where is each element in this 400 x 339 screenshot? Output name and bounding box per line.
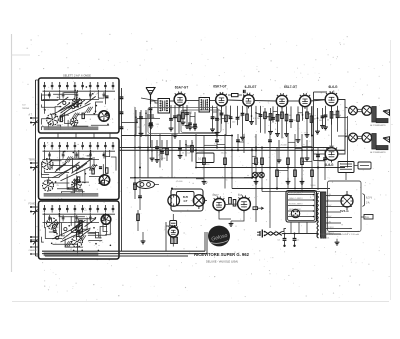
svg-text:1M: 1M <box>152 118 155 120</box>
oscillator section box <box>148 108 218 134</box>
primary tap wire NERO <box>288 210 314 212</box>
output transformer unit 2 <box>349 133 358 142</box>
wire cord to winding <box>295 234 317 238</box>
primary tap wire ROSSO <box>288 205 314 207</box>
wire 6L6 cathode links <box>331 106 333 148</box>
speaker magnet core unit 1 <box>372 107 376 123</box>
wire plate V5 <box>310 100 325 101</box>
wire V4 cathode drop <box>278 140 280 160</box>
svg-text:6L6-G: 6L6-G <box>324 163 334 167</box>
tuner box 3 bandswitch wafer S30 <box>47 218 58 229</box>
bus junction blobs <box>147 146 149 148</box>
fuse box <box>364 215 373 220</box>
wire plate V2 <box>227 99 243 102</box>
svg-text:BLU-NERO: BLU-NERO <box>289 215 300 217</box>
wire primary drop 2 <box>298 222 300 234</box>
wire vertical run 16 <box>269 134 271 228</box>
wire primary drop 1 <box>290 222 292 234</box>
tuner box 2 bandswitch wafer S22 <box>72 179 82 189</box>
junction dot 1 <box>134 147 136 149</box>
wire vertical run 9 <box>224 134 226 189</box>
tuner box 1 bandswitch wafer S10 <box>47 114 59 126</box>
svg-text:A.T.: A.T. <box>29 114 33 117</box>
wire OT return vertical <box>347 116 349 168</box>
bus mid 1 <box>122 135 233 137</box>
secondary lead 6 <box>326 222 341 224</box>
tube V9 6SQ7-GT <box>213 199 225 211</box>
transformer ground <box>336 239 338 242</box>
secondary lead 8 <box>326 233 341 235</box>
junction dot 7 <box>269 167 271 169</box>
ground left-mid <box>142 232 144 241</box>
field coil box <box>338 162 354 173</box>
mains plug <box>261 230 263 238</box>
wire vertical run 8 <box>216 134 218 148</box>
field coil wire <box>345 173 347 181</box>
speaker cone unit 2 <box>383 137 390 143</box>
power transformer primary tap box <box>286 191 317 223</box>
resistor on bus 5 <box>287 158 290 165</box>
junction dot 6 <box>255 149 257 151</box>
wire vertical run 19 <box>294 134 296 189</box>
wire 6L6 plate to OT2 <box>338 136 348 154</box>
filament bracket <box>363 194 365 207</box>
wire cord to primary <box>282 229 286 232</box>
junction dot 12 <box>261 188 263 190</box>
svg-text:6SA7-GT: 6SA7-GT <box>175 86 189 90</box>
wire top feed <box>141 98 158 101</box>
resistor on bus 1 <box>203 158 206 165</box>
svg-text:1 M: 1 M <box>156 124 160 126</box>
ground stub 4 <box>301 178 303 182</box>
resistor on bus 7 <box>301 158 304 165</box>
tuner box 3 bandswitch wafer S32 <box>75 227 82 234</box>
wire vertical run 7 <box>203 136 205 178</box>
tube V1 6SA7-GT <box>174 94 186 106</box>
wire vertical run 11 <box>237 134 239 150</box>
svg-text:6L6-G: 6L6-G <box>328 85 338 89</box>
svg-text:6SQ7: 6SQ7 <box>213 194 220 197</box>
svg-text:ROSSO: ROSSO <box>327 227 334 229</box>
tube V4 6SL7-GT <box>276 95 287 106</box>
dial lamp L2 <box>259 172 265 178</box>
wire V8 up <box>172 214 174 221</box>
wire cord junction <box>282 233 295 235</box>
wire plate V3 <box>254 100 277 103</box>
wire vertical run 13 <box>251 148 253 178</box>
wire tuner bottom exit 3 <box>45 255 188 257</box>
wire antenna down <box>150 104 152 148</box>
wire V8 left link <box>166 225 170 227</box>
IF transformer T1 <box>158 99 170 114</box>
svg-text:G.V.: G.V. <box>22 105 26 107</box>
wire outer left rail stub top <box>36 79 39 81</box>
wire grid V1 <box>170 100 175 102</box>
capacitor block feed 2 <box>120 111 124 113</box>
pilot lamp oval <box>137 181 155 189</box>
bus mid 3 <box>130 177 252 179</box>
wire vertical run 5 <box>171 134 173 178</box>
wire box1-box2 links <box>57 133 59 138</box>
wire vertical run 10 <box>231 136 233 189</box>
bus mid 2 <box>196 167 345 169</box>
svg-text:FONO: FONO <box>29 204 36 206</box>
resistor between V9 V10 b <box>233 200 236 207</box>
svg-text:ROSSO-NERO: ROSSO-NERO <box>289 204 303 206</box>
ground stub 3 <box>287 178 289 182</box>
svg-text:GT: GT <box>184 199 188 203</box>
junction dot 2 <box>159 149 161 151</box>
svg-text:25.000: 25.000 <box>281 145 288 147</box>
tube V10 <box>238 198 251 211</box>
capacitor block feed 1 <box>120 96 124 98</box>
wire tuner bottom exit 2 <box>42 253 207 255</box>
tuner box 2 coil can <box>99 175 109 185</box>
bus B+ screen <box>119 149 345 151</box>
wire push-pull loop left <box>314 91 328 93</box>
wire vertical run 17 <box>276 148 278 189</box>
resistor on bus 8 <box>311 170 314 177</box>
scan page edge bottom <box>12 301 389 303</box>
capacitor on bus 1 <box>215 139 219 141</box>
tuner box 1 bandswitch wafer S12 <box>70 118 78 126</box>
svg-text:50.000: 50.000 <box>319 161 326 163</box>
tuner box 2 shield box <box>39 138 120 200</box>
eye tube V12 socket <box>193 195 204 206</box>
secondary lead 2 <box>326 200 341 202</box>
tube V8 6SQ7 <box>168 227 178 237</box>
wire outer left rail <box>35 80 37 256</box>
wire vertical run 23 <box>324 150 326 180</box>
capacitor left-mid 1 <box>139 179 141 210</box>
RC network under V5 <box>297 106 299 139</box>
svg-text:Fus.: Fus. <box>365 217 370 219</box>
primary tap box inner outline <box>288 192 315 220</box>
input coil column <box>149 107 153 109</box>
svg-text:25.000: 25.000 <box>221 153 228 155</box>
wire antenna to T1 <box>151 101 159 103</box>
svg-text:ALTOPARLANTE: ALTOPARLANTE <box>370 124 386 127</box>
resistor near V10 <box>253 207 258 210</box>
wire exit drop 2 <box>206 232 208 254</box>
svg-text:NERO-NERO: NERO-NERO <box>289 209 302 211</box>
svg-text:6SL7-GT: 6SL7-GT <box>284 85 297 89</box>
power transformer primary winding <box>317 193 319 197</box>
RC network gap3 <box>317 108 319 131</box>
line filter cap 1 <box>284 234 286 239</box>
tuner box 2 bandswitch wafer S21 <box>43 180 54 191</box>
scan page edge left <box>11 34 13 272</box>
scan speckle noise <box>16 33 392 300</box>
wire push-pull grid bottom <box>314 153 326 155</box>
resistor R-osc grid <box>232 94 239 97</box>
ground stub 1 <box>203 178 205 182</box>
eye tube target V12a <box>168 195 180 207</box>
svg-text:25.000: 25.000 <box>225 115 232 117</box>
svg-text:ALTOPARLANTE: ALTOPARLANTE <box>370 151 386 154</box>
resistor on bus 3 <box>255 158 258 165</box>
svg-text:6,3 V 5 A.: 6,3 V 5 A. <box>320 237 330 240</box>
wire fuse <box>361 216 364 218</box>
svg-text:5V4-G: 5V4-G <box>340 209 349 213</box>
wire vertical run 4 <box>159 134 161 168</box>
svg-text:TERRA: TERRA <box>22 107 29 110</box>
svg-text:CAMBIO: CAMBIO <box>29 249 38 252</box>
junction dot 11 <box>317 167 319 169</box>
wire V10 down <box>231 210 244 221</box>
svg-text:SELETT. 2 A.F. 6 ONDE: SELETT. 2 A.F. 6 ONDE <box>63 74 91 78</box>
scan page edge top-left <box>12 54 31 56</box>
RC network under V6 <box>325 106 327 127</box>
IF transformer T2 <box>199 98 210 113</box>
svg-text:TERRA: TERRA <box>29 159 37 162</box>
RC network mid row2 <box>151 140 153 158</box>
resistor left-mid 1 <box>134 179 136 199</box>
junction dot 5 <box>231 177 233 179</box>
wire V8 left drop <box>165 222 167 251</box>
junction dot 4 <box>224 147 226 149</box>
RC network gap1 <box>189 112 191 127</box>
wire vertical run 2 <box>139 112 141 178</box>
RC network left col <box>135 110 137 135</box>
wire push-pull grid top <box>314 99 326 101</box>
capacitor on bus 4 <box>316 154 320 156</box>
wire grid V2 <box>210 100 216 102</box>
tuner box 2 bandswitch wafer S20 <box>42 159 53 170</box>
secondary enclosure box <box>328 181 362 232</box>
tuner box 1 coil can <box>99 111 109 121</box>
wire vertical run 21 <box>311 106 313 189</box>
tube V7 6L6-G <box>325 148 338 161</box>
tuner box 2 chassis band <box>44 193 98 196</box>
RC network under V4 <box>272 106 274 122</box>
svg-text:5.000: 5.000 <box>199 151 205 153</box>
resistor on bus 4 <box>276 170 279 177</box>
line filter cap 2 <box>294 234 296 239</box>
wire vertical run 1 <box>134 107 136 178</box>
junction dot 9 <box>301 149 303 151</box>
svg-text:50.000: 50.000 <box>203 164 210 166</box>
wire V9-V10 <box>225 203 238 206</box>
capacitor on bus 2 <box>236 139 240 141</box>
wire vertical run 14 <box>255 134 257 222</box>
tuner box 1 chassis band <box>44 127 98 130</box>
wire mesh links <box>252 155 256 157</box>
svg-text:350V: 350V <box>327 216 332 218</box>
wire V9 down <box>219 211 231 220</box>
svg-text:GIALLO-NERO: GIALLO-NERO <box>289 197 303 200</box>
bus mid 5 <box>262 191 320 193</box>
wire vertical run 22 <box>317 148 319 191</box>
wire exit drop 1 <box>204 232 206 251</box>
antenna symbol <box>150 95 152 104</box>
wire vertical run 6 <box>195 134 197 168</box>
wire vertical run 12 <box>243 134 245 153</box>
RC network mid row3 <box>179 140 181 156</box>
speaker magnet core unit 2 <box>372 134 376 150</box>
capacitor C-osc <box>243 90 245 93</box>
RC network gap2 <box>264 108 266 134</box>
tube V8 shield hatch <box>171 237 178 243</box>
wire vertical run 20 <box>301 134 303 192</box>
svg-text:5.000: 5.000 <box>310 185 316 187</box>
tuner box 1 bandswitch wafer S11 <box>72 98 82 108</box>
junction dot 10 <box>311 147 313 149</box>
svg-text:RICEVITORE SUPER G. 962: RICEVITORE SUPER G. 962 <box>194 252 250 257</box>
wire plate V1 <box>186 100 199 102</box>
wire vertical run 18 <box>287 134 289 189</box>
rectifier tube V11 5V4-G <box>341 195 353 207</box>
speaker cone unit 1 <box>383 110 390 116</box>
secondary lead 3 <box>326 206 352 208</box>
terminal dots bottom-left <box>30 239 32 241</box>
junction dot 8 <box>287 147 289 149</box>
aux box right of 6L6 <box>358 162 371 169</box>
tuner box 1 shield box <box>39 78 120 133</box>
RC network under V1 <box>170 105 172 128</box>
svg-text:1 M: 1 M <box>162 158 166 160</box>
tube V2 6SK7-GT <box>216 94 228 106</box>
primary tap wire VERDE <box>288 194 314 196</box>
wire OT B+ vertical <box>344 107 346 150</box>
svg-text:6V6: 6V6 <box>238 194 243 197</box>
voltage selector <box>291 209 299 217</box>
primary tap wire BLU <box>288 216 314 218</box>
RC network under V3 <box>237 106 239 125</box>
wire box to antenna link <box>122 121 138 123</box>
secondary lead 5 <box>326 217 352 219</box>
svg-text:5.000: 5.000 <box>187 112 193 114</box>
secondary lead 4 <box>326 211 341 213</box>
wire tuner bottom exit 1 <box>42 250 205 252</box>
tuner box 3 bandswitch wafer S31 <box>72 236 83 247</box>
tube V5 6SL7-GT b <box>299 95 310 106</box>
Geloso logo <box>208 226 230 247</box>
input terminal A.T. <box>30 117 32 119</box>
dial lamp L1 <box>252 172 258 178</box>
tube V3 6J5-GT <box>243 95 254 106</box>
output transformer unit 1 <box>349 106 358 115</box>
junction dot 3 <box>195 167 197 169</box>
tone cap box <box>196 153 214 163</box>
bus AVC <box>119 147 331 149</box>
wire V5 cathode drop <box>306 140 308 158</box>
capacitor block feed 3 <box>120 126 124 128</box>
svg-text:0: 0 <box>327 210 328 212</box>
secondary lead 1 <box>326 195 352 197</box>
capacitor on bus 3 <box>268 139 272 141</box>
svg-text:DELUXE - VALVOLE (USA): DELUXE - VALVOLE (USA) <box>206 259 238 263</box>
wire primary drop 3 <box>306 222 308 234</box>
resistor on bus 2 <box>224 158 227 165</box>
svg-text:25.000: 25.000 <box>176 181 183 183</box>
tuner box 3 chassis band <box>44 253 98 256</box>
svg-text:TENSIONE ANODICA 2x350 V. 120: TENSIONE ANODICA 2x350 V. 120 mA <box>320 233 359 236</box>
wire plate V4 <box>287 100 299 102</box>
svg-text:6SK7-GT: 6SK7-GT <box>213 84 227 88</box>
svg-text:350V: 350V <box>327 205 332 207</box>
tuner box 3 shield box <box>39 201 120 259</box>
wire outer left rail stub bottom <box>36 255 39 257</box>
scan page edge right <box>390 40 392 300</box>
secondary lead 7 <box>326 228 352 230</box>
ground stub 2 <box>255 178 257 182</box>
wire box2-box3 links <box>57 200 59 202</box>
oscillator inner box <box>181 110 221 133</box>
svg-text:6-J5-GT: 6-J5-GT <box>245 85 257 89</box>
RC network under V2 <box>212 106 214 130</box>
junction dot 13 <box>294 188 296 190</box>
eye tube inner box <box>177 192 195 206</box>
capacitor on bus 5 <box>323 157 327 159</box>
eye tube outer box <box>171 189 203 211</box>
tube V6 6L6-G <box>325 93 338 106</box>
resistor on bus 6 <box>294 170 297 177</box>
resistor between V9 V10 a <box>229 198 232 205</box>
svg-text:3 A.: 3 A. <box>366 202 370 205</box>
bus mid 4 <box>232 188 330 190</box>
wire vertical run 3 <box>147 134 149 178</box>
resistor on bus 9 <box>261 158 264 165</box>
svg-text:1M: 1M <box>66 236 69 238</box>
wire 6L6 plate to OT1 <box>338 100 348 109</box>
ground V9V10 <box>230 221 232 224</box>
svg-text:VERDE-NERO: VERDE-NERO <box>289 193 303 195</box>
primary tap wire GIALLO <box>288 199 314 201</box>
capacitor stack above V8 <box>170 221 177 227</box>
svg-text:50.000: 50.000 <box>151 135 158 137</box>
resistor left-mid 2 <box>137 210 139 231</box>
svg-text:6,3 V: 6,3 V <box>366 196 372 200</box>
wire vertical run 15 <box>261 148 263 192</box>
input terminal TERRA <box>30 162 32 164</box>
input terminal aux <box>30 236 32 238</box>
mains twisted cord <box>265 232 271 236</box>
power transformer core <box>321 192 326 238</box>
input terminal FONO <box>30 206 32 208</box>
tuner box 3 coil can <box>101 215 111 225</box>
wire block feed vertical <box>121 88 123 251</box>
